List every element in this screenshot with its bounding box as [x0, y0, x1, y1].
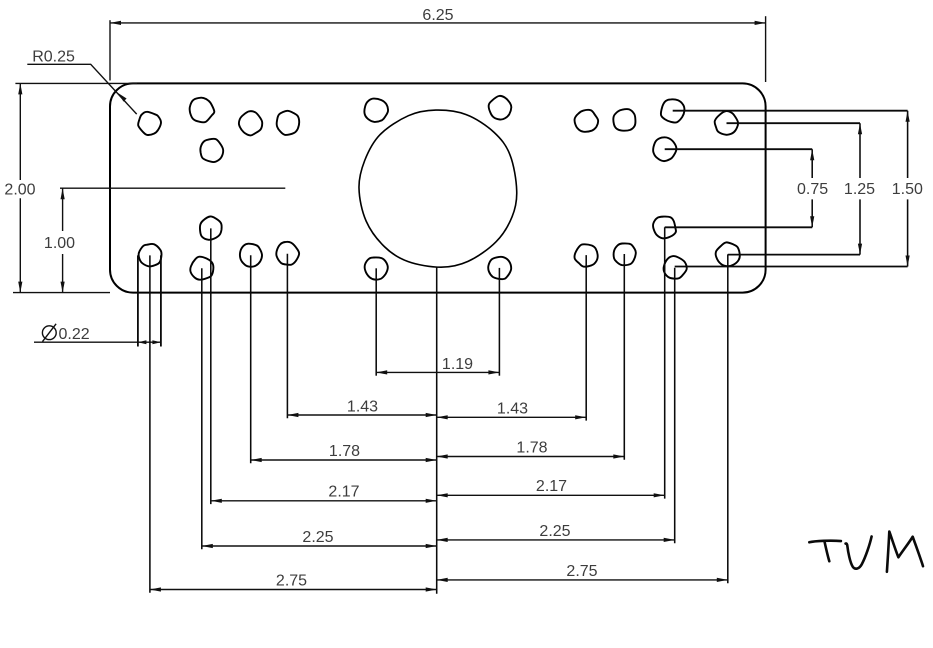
svg-text:0.75: 0.75	[797, 181, 828, 198]
dim 1.50 pointer bottom	[675, 266, 908, 268]
dim 1.43 left line	[287, 414, 436, 416]
dim 2.17 left line	[211, 500, 437, 502]
extension line hole B2	[201, 268, 203, 549]
dim 1.43 right line	[437, 416, 587, 418]
extension line hole B8	[585, 255, 587, 421]
hole B6 bottom left of center (1.19)	[365, 257, 388, 279]
dim 6.25 line	[110, 22, 766, 24]
svg-text:2.75: 2.75	[276, 572, 307, 589]
hole A12 right 2.17 (0.75 dim top)	[653, 137, 676, 161]
svg-text:1.78: 1.78	[329, 443, 360, 460]
hole B7 bottom right of center (1.19)	[488, 257, 511, 279]
dim 1.78 right line	[437, 456, 625, 458]
signature letter M	[887, 532, 923, 572]
svg-text:2.75: 2.75	[566, 563, 597, 580]
dim 2.75 right line	[437, 579, 728, 581]
hole A1 top-left 2.75	[138, 112, 161, 135]
hole A3 top 1.78	[239, 111, 262, 135]
dim 6.25 extension line right	[765, 16, 767, 82]
hole A4 top 1.43	[277, 111, 300, 135]
hole A9 top 1.78 right	[613, 109, 635, 131]
dim 2.25 right line	[437, 539, 675, 541]
dim 2.25 left line	[202, 545, 437, 547]
hole B4 bottom 1.78	[240, 244, 262, 267]
dim 1.00 line	[62, 188, 64, 292]
dim 1.00 pointer line to mid-height	[60, 187, 285, 189]
hole B11 bottom 2.25 right (1.50 dim)	[664, 256, 687, 279]
hole B9 bottom 1.78 right	[614, 243, 636, 265]
dim 0.75 line	[811, 149, 813, 227]
extension line hole B4	[250, 255, 252, 463]
hole B5 bottom 1.43	[276, 242, 299, 265]
extension line hole B1	[149, 255, 151, 592]
extension line hole B3	[210, 228, 212, 504]
dim 2.00 extension line top	[15, 82, 137, 84]
dim 1.50 pointer top	[673, 110, 908, 112]
hole B8 bottom 1.43 right	[574, 244, 597, 266]
svg-text:6.25: 6.25	[422, 7, 453, 24]
plate outline (6.25 x 2.00, R0.25 corners)	[110, 83, 766, 292]
extension line hole B6	[375, 268, 377, 375]
R0.25 leader line	[27, 64, 136, 114]
svg-text:0.22: 0.22	[59, 326, 90, 343]
dia 0.22 tangent extension lines	[138, 255, 161, 346]
svg-text:1.19: 1.19	[442, 356, 473, 373]
signature letter U	[846, 537, 872, 569]
center extension line	[436, 267, 438, 593]
extension line hole B12	[727, 254, 729, 583]
svg-text:1.43: 1.43	[497, 401, 528, 418]
dim 6.25 extension line left	[109, 20, 111, 80]
hole B12 bottom-right 2.75 (1.25 dim)	[716, 242, 740, 266]
hole B10 right 2.17 (0.75 dim bottom)	[653, 217, 676, 239]
extension line hole B9	[623, 254, 625, 460]
hole A5 top 2.17 (low)	[200, 139, 223, 162]
large center hole (1.50 dia)	[359, 110, 517, 267]
hole B1 bottom-left 2.75 (0.22 dia ref)	[139, 244, 162, 267]
dim 2.17 right line	[437, 494, 665, 496]
svg-text:2.25: 2.25	[539, 523, 570, 540]
hole A2 top 2.25	[190, 98, 215, 123]
hole A8 top 1.43 right	[575, 110, 599, 132]
svg-text:1.25: 1.25	[844, 181, 875, 198]
dim 2.75 left line	[150, 589, 437, 591]
svg-text:2.00: 2.00	[4, 182, 35, 199]
extension line hole B10	[664, 227, 666, 498]
svg-text:1.00: 1.00	[44, 235, 75, 252]
hole A7 top right of center	[489, 96, 512, 120]
dia 0.22 leader line	[34, 341, 161, 343]
svg-text:R0.25: R0.25	[32, 48, 75, 65]
hole A6 top left of center	[364, 99, 388, 122]
signature letter T	[809, 541, 841, 543]
hole A11 top-right 2.75 (1.25 dim)	[715, 111, 738, 135]
hole B3 bottom 2.17 (high)	[200, 216, 222, 239]
hole A10 top 2.25 right (1.50 dim)	[661, 99, 685, 122]
dim 1.78 left line	[251, 459, 437, 461]
dia 0.22 symbol	[42, 326, 56, 340]
dim 0.75 pointer bottom	[665, 226, 813, 228]
svg-text:2.17: 2.17	[328, 484, 359, 501]
svg-text:2.25: 2.25	[302, 529, 333, 546]
dim 1.19 line	[376, 371, 499, 373]
hole B2 bottom 2.25	[190, 257, 213, 280]
svg-text:1.43: 1.43	[347, 398, 378, 415]
svg-text:2.17: 2.17	[536, 478, 567, 495]
extension line hole B11	[674, 268, 676, 544]
extension line hole B7	[498, 268, 500, 376]
dim 0.75 pointer top	[665, 148, 813, 150]
svg-text:1.78: 1.78	[516, 439, 547, 456]
dim 1.50 line	[907, 111, 909, 267]
dim 2.00 extension line bottom	[13, 292, 110, 294]
dim 1.25 line	[859, 123, 861, 254]
dim 1.25 pointer top	[727, 122, 861, 124]
dim 1.25 pointer bottom	[728, 254, 860, 256]
svg-text:1.50: 1.50	[892, 181, 923, 198]
dim 2.00 line	[19, 83, 21, 292]
extension line hole B5	[286, 254, 288, 418]
